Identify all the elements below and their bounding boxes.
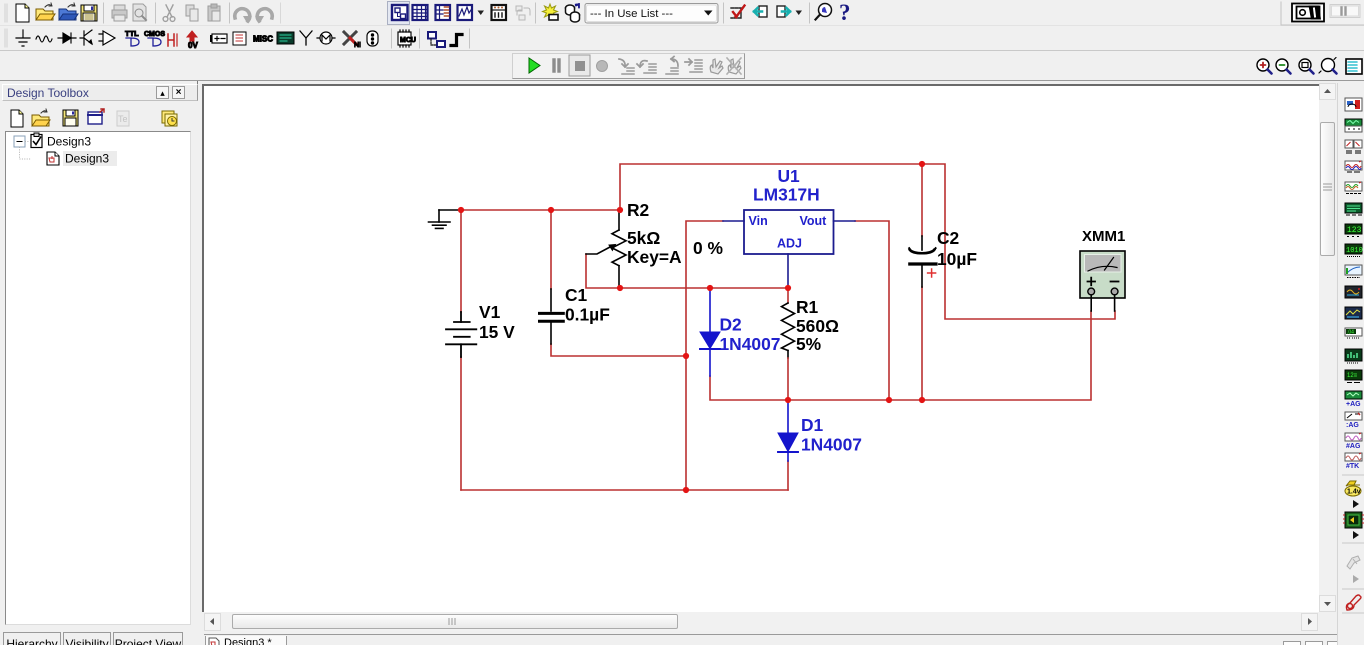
op-amp regulator U1 LM317H box bbox=[723, 210, 855, 286]
svg-text:MISC: MISC bbox=[253, 35, 273, 44]
svg-text:LM317H: LM317H bbox=[753, 185, 820, 205]
multimeter XMM1 bbox=[1080, 251, 1125, 311]
postprocessor bbox=[492, 5, 507, 20]
database view bbox=[436, 5, 451, 20]
step out bbox=[666, 57, 678, 75]
RF board bbox=[277, 32, 294, 44]
svg-text:D1: D1 bbox=[801, 415, 824, 435]
svg-text:C2: C2 bbox=[937, 228, 959, 248]
step into bbox=[619, 59, 634, 74]
zoom area bbox=[1299, 59, 1314, 74]
junction R1/D1 node bbox=[785, 397, 791, 403]
svg-text:Key=A: Key=A bbox=[627, 247, 682, 267]
open yellow bbox=[36, 3, 55, 20]
remove breakpoints hand bbox=[727, 58, 741, 74]
junction Vout rail node bbox=[886, 397, 892, 403]
new doc bbox=[16, 4, 29, 22]
wire bottom rail y=490 bbox=[461, 489, 788, 491]
TTL bbox=[125, 29, 139, 46]
svg-text:MCU: MCU bbox=[400, 37, 416, 44]
zoom in bbox=[1257, 59, 1272, 74]
wire V1 bottom bbox=[460, 357, 462, 490]
fwd annotate bbox=[777, 6, 790, 17]
electromech Y bbox=[300, 31, 312, 45]
svg-text:1N4007: 1N4007 bbox=[801, 435, 862, 455]
junction C2 bottom node bbox=[919, 397, 925, 403]
yellow voltmeter bbox=[1342, 474, 1364, 476]
svg-text:5%: 5% bbox=[796, 334, 821, 354]
diode icon bbox=[58, 33, 76, 43]
cut gray bbox=[163, 5, 175, 21]
svg-text:U1: U1 bbox=[778, 166, 801, 186]
pin names bbox=[749, 214, 828, 251]
svg-text:Vout: Vout bbox=[800, 214, 828, 228]
play bbox=[529, 58, 540, 73]
svg-text:1010: 1010 bbox=[1346, 247, 1363, 255]
grip bbox=[5, 4, 7, 22]
run toggle bbox=[1292, 4, 1324, 22]
misc digital bbox=[168, 34, 177, 46]
bottom-right cut-off tab scroll buttons bbox=[1283, 641, 1301, 645]
svg-text:D2: D2 bbox=[720, 315, 742, 335]
svg-text:CMOS: CMOS bbox=[144, 31, 165, 38]
wire Vin bbox=[686, 221, 723, 490]
junction V1/ground node bbox=[458, 207, 464, 213]
junction R2 bottom node bbox=[617, 285, 623, 291]
wire Vout bbox=[855, 221, 889, 400]
wire R2 wiper loop bbox=[586, 254, 786, 288]
svg-text:#TK: #TK bbox=[1346, 463, 1359, 470]
svg-text:--- In Use List ---: --- In Use List --- bbox=[590, 8, 673, 20]
find bbox=[816, 4, 832, 20]
tree area bbox=[5, 131, 191, 625]
title bar bbox=[2, 84, 198, 101]
open blue bbox=[59, 3, 78, 20]
MCU bbox=[398, 30, 416, 47]
wire D1 branch bbox=[787, 400, 789, 490]
motor bbox=[317, 32, 335, 44]
database manager bbox=[566, 4, 580, 22]
stop circle disabled bbox=[597, 61, 608, 72]
plus polarity mark bbox=[928, 269, 936, 277]
wire C2 top bbox=[921, 164, 923, 236]
junction ADJ/R1 node bbox=[785, 285, 791, 291]
potentiometer R2 bbox=[586, 212, 626, 287]
svg-text:10µF: 10µF bbox=[937, 249, 977, 269]
grapher bbox=[458, 5, 473, 20]
svg-text:+AG: +AG bbox=[1346, 401, 1361, 408]
svg-text:#AG: #AG bbox=[1346, 443, 1361, 450]
misc box bbox=[233, 32, 246, 45]
save bbox=[81, 5, 97, 21]
label U1 bbox=[753, 166, 820, 205]
NI comp bbox=[344, 32, 361, 49]
svg-text:0.1µF: 0.1µF bbox=[565, 305, 610, 325]
pause bbox=[554, 60, 559, 71]
run to cursor bbox=[685, 59, 702, 72]
hier block bbox=[428, 32, 445, 47]
svg-text:?: ? bbox=[839, 0, 851, 25]
svg-text:.04: .04 bbox=[1347, 330, 1354, 336]
junction Vin bottom node bbox=[683, 487, 689, 493]
bus bbox=[451, 35, 462, 46]
wire C1 top bbox=[550, 210, 552, 289]
stop pressed bbox=[569, 55, 590, 76]
svg-text:0 %: 0 % bbox=[693, 238, 723, 258]
paste gray bbox=[208, 4, 220, 21]
zoom out bbox=[1276, 59, 1291, 74]
labels bbox=[479, 200, 1125, 354]
svg-text:V1: V1 bbox=[479, 302, 501, 322]
label R1 bbox=[796, 297, 839, 354]
label C1 bbox=[565, 285, 610, 325]
svg-text:5kΩ: 5kΩ bbox=[627, 228, 660, 248]
capacitor C1 bbox=[540, 289, 564, 344]
signal source bbox=[36, 36, 52, 42]
ground/source bbox=[16, 30, 30, 46]
junction C2 top node bbox=[919, 161, 925, 167]
junction R2 top node bbox=[617, 207, 623, 213]
redo gray bbox=[255, 9, 272, 23]
pin Vin stub bbox=[723, 220, 744, 222]
panel toolbar bbox=[2, 106, 198, 134]
instrument icons approximations; x 0..17 = page 1344..1361 bbox=[1345, 98, 1362, 111]
junction C1 top node bbox=[548, 207, 554, 213]
design toolbox toggle (pressed) bbox=[388, 2, 410, 25]
create component bbox=[543, 4, 559, 20]
diode D2 bbox=[700, 289, 720, 376]
power comp bbox=[211, 34, 227, 43]
junction D2 anode node bbox=[707, 285, 713, 291]
pin ADJ stub bbox=[787, 254, 789, 286]
battery V1 bbox=[446, 312, 476, 357]
svg-text:15 V: 15 V bbox=[479, 322, 515, 342]
wire C1 bottom to node bbox=[551, 344, 686, 356]
svg-text::AG: :AG bbox=[1346, 422, 1359, 429]
capacitor C2 polarized bbox=[909, 236, 936, 287]
svg-text:0V: 0V bbox=[188, 41, 198, 50]
bottom tabs bbox=[2, 630, 200, 645]
indicator bbox=[187, 31, 198, 50]
zoom fit bbox=[1319, 58, 1337, 74]
svg-text:R1: R1 bbox=[796, 297, 819, 317]
grayed transfer bbox=[516, 6, 530, 20]
connector bbox=[367, 31, 378, 46]
wire top rail y=164 bbox=[620, 164, 1115, 319]
pause at breakpoint hand bbox=[710, 59, 723, 74]
svg-text:12≡: 12≡ bbox=[1347, 373, 1358, 379]
preview gray bbox=[133, 4, 146, 21]
pause btn bbox=[1330, 5, 1360, 18]
copy gray bbox=[186, 5, 198, 21]
CMOS bbox=[144, 31, 165, 46]
ground bbox=[429, 210, 462, 228]
svg-text:XMM1: XMM1 bbox=[1082, 228, 1125, 245]
wire ground rail y=210 bbox=[461, 209, 620, 211]
wire C2 bottom bbox=[921, 287, 923, 400]
pin Vout stub bbox=[834, 220, 856, 222]
svg-text:Design3: Design3 bbox=[47, 135, 91, 149]
fullscreen bbox=[1346, 59, 1362, 74]
label XMM1 bbox=[1082, 228, 1125, 245]
svg-text:Design3: Design3 bbox=[65, 152, 109, 166]
svg-text:Te: Te bbox=[118, 114, 128, 124]
transistor icon bbox=[80, 30, 92, 45]
svg-text:TTL: TTL bbox=[125, 29, 139, 38]
back annotate bbox=[754, 6, 767, 17]
ERC bbox=[731, 6, 745, 20]
wire V1 top bbox=[460, 210, 462, 312]
step over bbox=[637, 61, 656, 73]
label percent bbox=[693, 238, 723, 258]
svg-text:ADJ: ADJ bbox=[777, 237, 802, 251]
label V1 bbox=[479, 302, 515, 342]
svg-text:NI: NI bbox=[354, 42, 361, 49]
wire output rail y=400 bbox=[710, 311, 1091, 400]
label D1 bbox=[801, 415, 862, 455]
in use list combo bbox=[585, 4, 718, 24]
svg-text:560Ω: 560Ω bbox=[796, 316, 839, 336]
label R2 bbox=[627, 200, 682, 267]
label D2 bbox=[720, 315, 781, 355]
resistor R1 bbox=[782, 290, 795, 400]
diode D1 bbox=[778, 402, 798, 461]
print gray bbox=[112, 5, 127, 21]
undo gray bbox=[235, 9, 252, 23]
junction C1/Vin node bbox=[683, 353, 689, 359]
svg-text:1.4v: 1.4v bbox=[1347, 489, 1361, 496]
svg-text:123: 123 bbox=[1347, 226, 1362, 235]
svg-text:R2: R2 bbox=[627, 200, 649, 220]
spreadsheet bbox=[413, 5, 428, 20]
svg-text:Vin: Vin bbox=[749, 214, 768, 228]
analog opamp bbox=[99, 31, 115, 45]
svg-text:1N4007: 1N4007 bbox=[720, 334, 781, 354]
svg-text:C1: C1 bbox=[565, 285, 588, 305]
label C2 bbox=[937, 228, 977, 269]
